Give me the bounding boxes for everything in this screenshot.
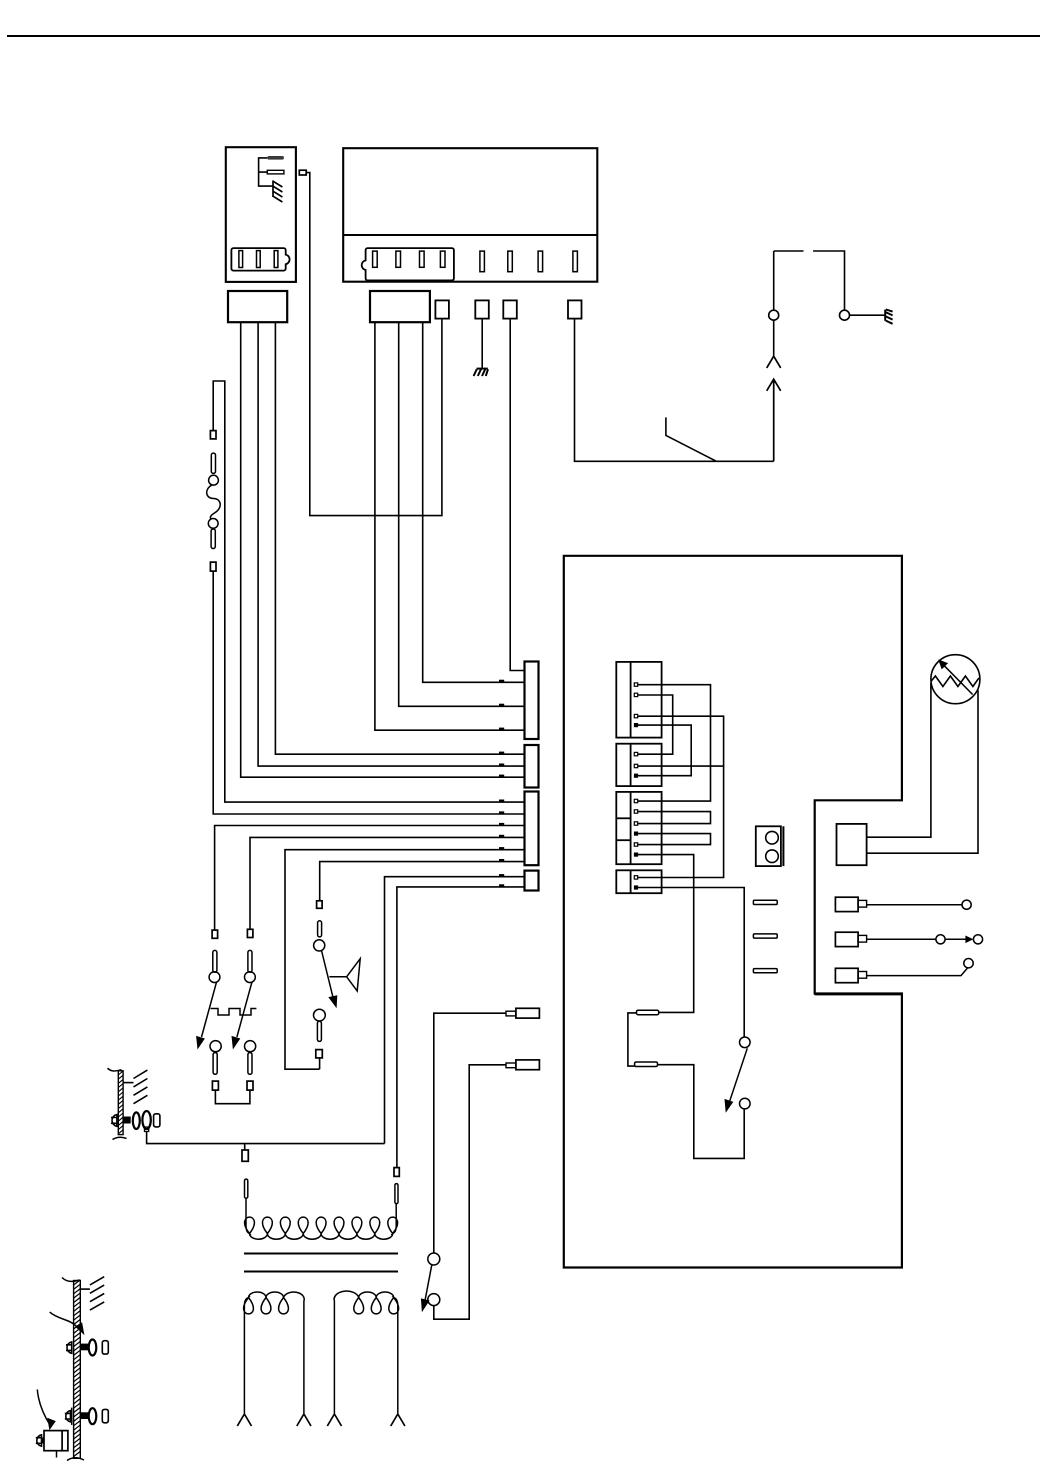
wire: block3 pin2-pin3 hairpin [638, 812, 711, 824]
chassis ground at lower panel [80, 1277, 104, 1310]
harness plug upper (to lamp switch) [506, 1008, 539, 1018]
wire: internal regulator wiring [259, 158, 273, 186]
chassis panel lower (hatched) [62, 1278, 84, 1461]
switch blade stub on feed wire [666, 417, 717, 461]
dual switch right pole: lower contact [245, 1041, 256, 1052]
block 2 (3-pin) [616, 744, 661, 786]
dual switch left pole: lower terminal [213, 1053, 217, 1075]
lead chevron 4 [391, 1414, 405, 1426]
dual switch right pole: lower plug [247, 1081, 253, 1090]
terminal strip 4 [525, 871, 539, 891]
wire: single switch lower plug pin [319, 1058, 321, 1069]
chassis rail wire [147, 1132, 385, 1144]
fuse element S-wire [207, 485, 221, 519]
dual switch right pole: female terminal [248, 950, 252, 972]
wire: strip4 row2 down to coil plug [397, 887, 525, 1168]
connector socket on left unit (3 slots) [231, 248, 289, 271]
wire: block1 pin1 to block3 pin1 [638, 685, 711, 801]
plug assembly row 3 [835, 959, 973, 983]
fuse end cap circle (bottom) [208, 519, 218, 529]
inner switch upper contact [740, 1037, 751, 1048]
connector socket in right unit (4 slots) [362, 248, 454, 280]
wire: upper harness plug to lamp switch top [434, 1013, 506, 1253]
harness plug lower [506, 1060, 539, 1070]
plug E [475, 300, 489, 318]
wire: block1 pin2 to block2 pin1 [638, 695, 673, 754]
bracket joining terminals A and B [628, 1013, 637, 1066]
dual switch left pole: lower contact [210, 1041, 221, 1052]
secondary winding 2 [334, 1291, 398, 1413]
inner switch lower contact [740, 1098, 751, 1109]
wire: gauge left lead to sensor [867, 683, 931, 837]
free slot 2 [508, 251, 513, 272]
ground hatch inside left box [273, 180, 282, 202]
wire: P1 down and over to square D [306, 173, 442, 516]
bolt at upper plate: screw head [111, 1115, 117, 1127]
plug G [568, 300, 582, 318]
dual switch right pole: contact [245, 972, 256, 983]
coil female terminal right [395, 1184, 398, 1204]
wire: F to terminal strip 1 row 1 [510, 319, 524, 671]
bolt shaft [123, 1117, 131, 1124]
free slot 3 [538, 251, 543, 272]
coil plug left [242, 1150, 248, 1161]
wire: notch bottom emphasis [815, 993, 902, 996]
dual switch left pole: lower plug [212, 1081, 218, 1090]
block2 pins [634, 752, 637, 755]
wire: strip3 row4 down to dual switch right pole [250, 837, 525, 929]
wire: block1 pin4 to block2 pin3 [638, 725, 691, 776]
connector chevron (upper half) [767, 356, 781, 368]
connector block under right unit [370, 291, 430, 322]
wire: fuse bottom to strip3 row2 [213, 571, 524, 814]
chassis ground at upper plate [123, 1070, 147, 1104]
washer [133, 1112, 140, 1129]
secondary winding 1 [244, 1292, 305, 1413]
wire: right connector lead 1 [375, 322, 525, 730]
bottom unit box [44, 1431, 68, 1451]
block 4 (2-pin) [616, 870, 661, 893]
wire: strip3 row6 to single switch top [320, 862, 525, 901]
coil plug right [394, 1168, 399, 1177]
connector block under left unit [228, 291, 287, 322]
single switch: actuator triangle [329, 959, 360, 991]
fuse holder plug (bottom) [210, 562, 216, 571]
free slot 1 [480, 251, 485, 272]
bottom unit screw [36, 1435, 42, 1446]
single switch: lower contact [314, 1009, 326, 1021]
switch top wire with gap [774, 251, 845, 310]
wire: block4 pin2 to inner switch [638, 888, 744, 1037]
block 1 (4-pin) [616, 662, 661, 738]
fuse female terminal (bottom) [211, 529, 215, 549]
wire: block1 pin3 to block4 pin1 (bus) [638, 716, 724, 877]
terminal blade T1 (filled) [267, 156, 284, 160]
terminal strip 2 [525, 745, 539, 788]
terminal blade T2 [267, 170, 284, 174]
single switch: blade arrow [322, 951, 334, 999]
single switch: female terminal [318, 921, 322, 937]
lead chevron 1 [237, 1414, 251, 1426]
wire: right connector lead 3 [423, 322, 525, 682]
free slot 4 [573, 251, 578, 272]
fuse female terminal (top) [211, 453, 215, 473]
box: right unit (control unit) [343, 148, 597, 282]
dual switch right pole: blade arrow [237, 982, 252, 1037]
bolt 1 at lower panel [66, 1342, 72, 1353]
switch contact circle right [840, 310, 850, 320]
dual switch left pole: plug [212, 930, 218, 938]
lamp switch blade arrow [425, 1265, 432, 1300]
chassis ground under E [474, 369, 488, 376]
splice ticks on strip wires [499, 680, 504, 887]
ignition switch top-right: left lead [773, 251, 775, 356]
block4 pins [634, 876, 637, 879]
chassis plate upper (hatched) [108, 1068, 127, 1139]
dual switch left pole: blade arrow [202, 982, 217, 1037]
bottom unit stub [56, 1451, 58, 1458]
single switch: contact [314, 940, 325, 951]
wire: block3 pin4-pin5 hairpin [638, 834, 711, 845]
dual switch right pole: plug [247, 929, 253, 937]
fuse loop wire from strip3 row1 [213, 381, 524, 802]
spare terminal bar 1 [753, 900, 777, 904]
dual switch right pole: lower terminal [248, 1053, 252, 1075]
main unit box (with right notch) [564, 556, 902, 1268]
terminal strip 3 [525, 792, 539, 866]
plug assembly row 2 [835, 932, 982, 946]
plug D [435, 300, 449, 318]
lamp switch lower contact [428, 1294, 440, 1306]
wire: joins dual switch lower plugs [215, 1090, 250, 1104]
connector arrow (lower half) [767, 379, 781, 461]
gauge (rheostat) [931, 655, 980, 704]
leader arrow to panel [50, 1312, 83, 1331]
box: left unit (regulator) [226, 147, 296, 282]
sensor box [837, 824, 867, 865]
wire: strip3 row3 down to dual switch left pole [215, 826, 525, 931]
header rule [7, 35, 1040, 37]
block 3 (6-pin) [616, 792, 661, 864]
bolt 2 at lower panel [71, 1408, 73, 1425]
ring terminal with tail [142, 1111, 150, 1129]
single switch: lower terminal [317, 1021, 321, 1041]
mechanical link between poles [211, 1009, 257, 1016]
dual switch left pole: female terminal [213, 950, 217, 972]
transformer core [244, 1253, 398, 1255]
wire: left connector lead 1 [241, 322, 525, 777]
leader arrow to bottom unit [37, 1390, 50, 1426]
flasher relay [756, 826, 784, 866]
terminal strip 1 [525, 662, 539, 740]
dual switch left pole: contact [209, 972, 220, 983]
wire: gauge right lead to sensor [867, 690, 978, 853]
wire: E to chassis ground [481, 319, 483, 368]
lamp terminal B [635, 1062, 658, 1067]
wire: terminal B to inner switch lower contact [658, 1065, 745, 1159]
wire: rail drop to coil plug left [244, 1144, 246, 1150]
fuse end cap circle (top) [209, 475, 219, 485]
coil female terminal left [245, 1179, 248, 1198]
wire: strip4 row1 down to chassis rail [385, 877, 525, 1144]
wire: left connector lead 3 [275, 322, 524, 754]
block3 pins [634, 799, 637, 802]
wire: left connector lead 2 [258, 322, 524, 766]
plug assembly row 1 [835, 897, 971, 911]
primary winding [245, 1198, 398, 1239]
wire: right contact to ground [850, 314, 885, 316]
switch contact circle left [769, 310, 779, 320]
lamp terminal A [637, 1010, 659, 1015]
plug F [503, 300, 517, 318]
divider line in right unit [343, 234, 597, 236]
single switch: lower plug [316, 1050, 323, 1058]
plug P1 beside left unit [299, 170, 306, 175]
lead chevron 2 [297, 1414, 311, 1426]
chassis ground at switch [885, 309, 892, 323]
wire: lower harness plug loop to lamp switch bottom [434, 1065, 506, 1319]
wire: strip3 row5 loop to single switch bottom [285, 850, 525, 1069]
inner switch blade arrow [729, 1048, 747, 1102]
wire: right connector lead 2 [399, 322, 525, 706]
spare terminal bar 2 [753, 934, 777, 938]
wire: block3 pin6 down to lamp terminal A [638, 855, 694, 1013]
lead chevron 3 [327, 1414, 341, 1426]
fuse holder plug (top) [210, 431, 216, 439]
block1 pins [634, 683, 637, 686]
wire: G down and right to ignition switch lead [575, 319, 774, 462]
spare terminal bar 3 [753, 969, 777, 973]
single switch: plug [317, 901, 323, 909]
terminal capsule [154, 1114, 160, 1127]
lamp switch upper contact [428, 1253, 440, 1265]
